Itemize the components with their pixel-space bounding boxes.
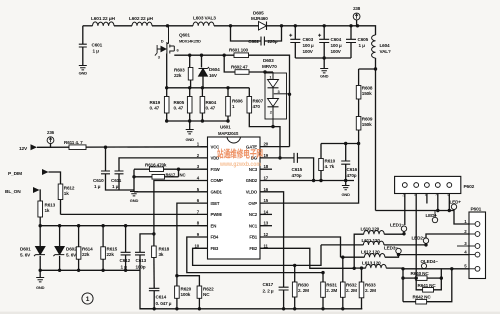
svg-text:MRV70: MRV70: [262, 64, 277, 69]
svg-text:0. 47: 0. 47: [174, 106, 184, 111]
svg-text:www.gzwxb.com: www.gzwxb.com: [219, 161, 261, 168]
wire R631 bottom: [322, 297, 324, 309]
svg-text:D601: D601: [20, 247, 31, 252]
svg-text:NC: NC: [203, 292, 210, 297]
capacitor C612: [120, 252, 131, 269]
wire P601 pin4 line: [399, 254, 470, 256]
transistor Q2... Q601 MOSFET: [155, 26, 201, 60]
wire P602 pinB stem: [415, 194, 417, 279]
resistor R617: [152, 175, 165, 180]
svg-text:2. 2M: 2. 2M: [326, 288, 337, 293]
wire sense gnd stem: [189, 121, 191, 129]
inductor L603: [193, 16, 216, 26]
wire R640 right up: [440, 269, 442, 278]
node rail R619: [165, 86, 168, 89]
svg-text:MJR460: MJR460: [251, 16, 268, 21]
resistor R607: [247, 97, 264, 114]
inductor L602: [129, 16, 154, 26]
wire R631 top stub: [322, 273, 324, 282]
wire L611 feed line: [321, 244, 363, 246]
svg-text:P_DIM: P_DIM: [8, 171, 22, 177]
node bottom rail R620: [175, 307, 178, 310]
resistor R603: [174, 68, 193, 81]
svg-text:R616 470k: R616 470k: [145, 163, 167, 168]
svg-text:COMP: COMP: [211, 178, 224, 183]
svg-text:NC1: NC1: [249, 223, 258, 228]
wire R609 bottom: [358, 130, 360, 144]
resistor R602: [231, 65, 249, 75]
svg-text:22k: 22k: [82, 252, 90, 257]
svg-text:C613: C613: [136, 258, 147, 263]
wire 12V line: [37, 146, 208, 149]
svg-text:100 μ: 100 μ: [303, 43, 314, 48]
node R617 left: [132, 175, 135, 178]
node pinB R641: [415, 276, 418, 279]
svg-text:Q601: Q601: [179, 33, 190, 38]
input BL_ON: [5, 187, 40, 195]
svg-text:20: 20: [264, 142, 269, 147]
wire LED2- to L611: [425, 243, 427, 245]
svg-text:0. 47: 0. 47: [206, 106, 216, 111]
svg-text:R607: R607: [253, 99, 264, 104]
resistor R619: [150, 97, 170, 114]
svg-text:R631: R631: [326, 283, 337, 288]
wire C613 bottom to gnd corner: [140, 255, 154, 309]
wire P_DIM to R612: [49, 172, 61, 184]
svg-text:PWMI: PWMI: [211, 212, 222, 217]
wire Q601 source to sense rail: [166, 54, 168, 88]
resistor R622: [197, 286, 214, 298]
wire bus D605 to L604 corner: [267, 26, 376, 35]
wire D602 top stem: [59, 226, 61, 247]
node FB2 L613 L610: [353, 267, 356, 270]
wire R632 bottom: [342, 297, 344, 309]
svg-text:GND: GND: [130, 198, 139, 203]
resistor R641: [418, 283, 437, 292]
wire left gnd rail: [40, 269, 140, 271]
node R640 left: [401, 276, 404, 279]
wire divider branch: [359, 68, 376, 70]
svg-text:MAP3204S: MAP3204S: [218, 131, 239, 136]
inductor L610: [361, 227, 385, 235]
wire R619 leads: [166, 88, 168, 97]
zener D601: [34, 247, 45, 257]
svg-text:C603: C603: [303, 37, 314, 42]
svg-text:R608: R608: [362, 86, 373, 91]
node R610 bottom junction: [319, 179, 322, 182]
wire L613 right lead: [386, 267, 403, 270]
wire GND2 pin17 line: [260, 180, 354, 182]
wire ISET pin6 line: [177, 203, 208, 276]
wire R616 left lead: [134, 168, 150, 170]
wire C614 bottom: [153, 291, 155, 309]
wire L613 lead: [354, 267, 366, 269]
wire OVP filter top: [321, 143, 359, 145]
node EN C612: [124, 224, 127, 227]
svg-text:BL_ON: BL_ON: [5, 189, 21, 195]
svg-text:LED1−: LED1−: [390, 223, 404, 228]
wire cap rail GND stem: [323, 58, 325, 68]
svg-text:站通维修电子网: 站通维修电子网: [217, 148, 263, 161]
svg-text:R610: R610: [325, 159, 336, 164]
svg-text:R604: R604: [206, 100, 217, 105]
wire C605 stem top: [350, 26, 352, 40]
svg-text:ISET: ISET: [211, 201, 220, 206]
wire EN pin8 rail: [40, 225, 207, 227]
svg-text:R605: R605: [174, 100, 185, 105]
svg-text:FB1: FB1: [249, 235, 257, 240]
svg-text:R633: R633: [365, 283, 376, 288]
wire R608-R609: [358, 99, 360, 117]
wire L604 to output node: [375, 58, 377, 211]
wire L610 lead corner: [354, 234, 364, 268]
node pin5 left: [401, 267, 404, 270]
svg-text:C617: C617: [263, 282, 274, 287]
ground C601: [79, 66, 88, 76]
wire NC3 pin18 stub: [260, 168, 272, 170]
svg-text:17: 17: [264, 176, 269, 181]
wire FB3 pin10 line: [193, 245, 321, 266]
svg-text:GND: GND: [79, 71, 88, 76]
node C610 tap: [104, 146, 107, 149]
wire R630 bottom: [294, 297, 296, 309]
wire R617 leads: [134, 176, 152, 178]
wire FSW pin3 line: [164, 168, 208, 170]
node gnd rail C612: [124, 269, 127, 272]
svg-text:NC: NC: [180, 173, 186, 178]
svg-text:16: 16: [264, 187, 269, 192]
node rail R630: [293, 307, 296, 310]
svg-text:GND: GND: [320, 74, 329, 79]
wire C603 stem top: [294, 26, 296, 40]
wire LED1- to L610: [403, 231, 405, 233]
label R616 value placeholder: [0, 0, 1, 1]
svg-text:LED+: LED+: [450, 200, 462, 205]
wire C611 bottom: [118, 174, 120, 190]
node L611 LED2-: [424, 243, 427, 246]
node watermark (orange stamp): [217, 148, 263, 168]
wire R632 top stub: [342, 257, 344, 282]
svg-text:D: D: [161, 38, 164, 43]
wire R606 leads: [227, 88, 229, 97]
node gnd rail R614: [77, 269, 80, 272]
ground sense resistors: [185, 130, 194, 143]
svg-text:L612 120: L612 120: [361, 250, 380, 255]
wire R602 right lead: [249, 71, 273, 73]
node D603 pin3 junction: [288, 93, 291, 96]
wire D601 bottom stem: [39, 256, 41, 270]
resistor R609: [356, 117, 373, 131]
wire P602 pinA stem: [404, 194, 406, 226]
svg-text:470p: 470p: [292, 173, 302, 178]
wire VDD pin2 line: [119, 158, 208, 171]
svg-text:13: 13: [264, 221, 269, 226]
wire P602 pinC stub: [426, 194, 428, 204]
svg-text:D603: D603: [263, 58, 274, 63]
svg-text:R613: R613: [45, 203, 56, 208]
test point LED+ (upper): [450, 200, 462, 210]
wire R633 bottom: [361, 298, 363, 309]
wire NC1 pin13 stub: [260, 225, 272, 227]
svg-text:GND: GND: [36, 285, 45, 290]
svg-text:R602 47: R602 47: [231, 65, 248, 70]
svg-text:GND: GND: [185, 137, 194, 142]
svg-text:5. 6V: 5. 6V: [20, 253, 31, 258]
svg-text:C605: C605: [358, 37, 369, 42]
svg-text:FB4: FB4: [211, 235, 219, 240]
node gnd rail D601: [39, 269, 42, 272]
svg-text:100 μ: 100 μ: [331, 43, 342, 48]
connector P602: [395, 176, 475, 197]
svg-text:16V: 16V: [209, 73, 218, 78]
test point LED1-: [390, 223, 407, 232]
node bottom rail R606: [226, 119, 229, 122]
ground left rail: [36, 278, 45, 291]
test point 236: [47, 130, 55, 144]
svg-text:R614: R614: [82, 247, 93, 252]
wire cap gnd vertical: [133, 170, 135, 192]
wire sense bottom rail: [167, 113, 228, 121]
wire C603 stem bottom: [294, 43, 296, 59]
node L612 R632: [341, 256, 344, 259]
svg-text:22k: 22k: [174, 73, 182, 78]
resistor R601: [229, 48, 249, 58]
svg-text:2. 2 μ: 2. 2 μ: [263, 289, 274, 294]
svg-text:LED2−: LED2−: [412, 236, 426, 241]
test point 238: [353, 6, 361, 20]
wire TP238 stem: [356, 20, 358, 26]
wire Q601 gate line: [174, 54, 234, 56]
capacitor C602: [248, 37, 277, 46]
svg-text:L610 120: L610 120: [361, 227, 380, 232]
wire R642 left lead: [403, 301, 416, 303]
wire C616 bottom stem: [345, 164, 347, 180]
wire OVP pin15 line: [260, 144, 359, 204]
wire bus L602-L603 with drain tap: [152, 25, 193, 27]
svg-text:P601: P601: [471, 207, 482, 213]
inductor L613: [362, 261, 386, 269]
svg-text:R619: R619: [150, 100, 161, 105]
node page marker (1): [82, 293, 93, 304]
wire GND1 pin5 line: [134, 191, 208, 193]
capacitor C611: [111, 171, 124, 189]
wire C601 to ground: [82, 47, 84, 65]
wire R642 right lead: [427, 269, 452, 302]
svg-text:12V: 12V: [19, 146, 28, 152]
wire R605 bottom: [189, 113, 191, 121]
wire main bottom rail: [140, 308, 362, 310]
capacitor C613: [135, 252, 147, 269]
svg-text:R615: R615: [107, 247, 118, 252]
node rail R631: [321, 307, 324, 310]
svg-text:2. 2M: 2. 2M: [298, 288, 309, 293]
node C615 bottom junction: [312, 179, 315, 182]
wire R612 to PWMI: [60, 200, 62, 215]
svg-text:11: 11: [264, 243, 269, 248]
svg-text:10: 10: [194, 243, 199, 248]
node R640 right: [440, 276, 443, 279]
svg-text:R630: R630: [298, 283, 309, 288]
wire R603 bottom lead: [190, 80, 192, 88]
svg-text:5. 6V: 5. 6V: [66, 253, 77, 258]
wire bus L603 to D605: [214, 25, 259, 27]
resistor R612: [58, 184, 75, 200]
svg-text:LED+: LED+: [426, 213, 438, 218]
wire BL_ON to R613: [39, 190, 42, 201]
svg-text:C604: C604: [331, 37, 342, 42]
svg-text:L613 120: L613 120: [362, 261, 381, 266]
svg-text:R601 100: R601 100: [229, 48, 248, 53]
svg-text:12: 12: [264, 232, 269, 237]
node gnd rail D602: [58, 269, 61, 272]
node OVP divider junction: [357, 142, 360, 145]
svg-text:R603: R603: [174, 68, 185, 73]
wire D604 bottom lead: [202, 76, 204, 88]
inductor L601: [91, 16, 116, 26]
svg-text:100V: 100V: [303, 49, 314, 54]
svg-text:C614: C614: [156, 295, 167, 300]
node C616 top junction: [344, 142, 347, 145]
wire FB1 pin12 line: [260, 237, 341, 257]
resistor R632: [341, 282, 358, 297]
svg-text:GND: GND: [341, 192, 350, 197]
capacitor C601: [79, 43, 103, 54]
wire R620-R622 top link: [177, 276, 200, 286]
wire R615 top stem: [102, 226, 104, 247]
svg-text:C601: C601: [92, 43, 103, 48]
svg-text:0. 47: 0. 47: [150, 106, 160, 111]
wire R603 top lead: [189, 55, 191, 67]
wire TP236 stem: [50, 144, 52, 148]
node bottom rail C614: [153, 307, 156, 310]
wire C615 right: [297, 158, 313, 181]
wire R617 right vertical: [178, 169, 180, 177]
svg-text:2. 2M: 2. 2M: [365, 288, 376, 293]
wire R610 top: [320, 144, 322, 159]
capacitor C615: [292, 153, 303, 178]
resistor R631: [321, 282, 338, 297]
inductor L612: [361, 250, 385, 258]
input P_DIM: [8, 169, 49, 177]
resistor R620: [175, 286, 192, 298]
capacitor C605: [346, 37, 369, 48]
svg-text:GND1: GND1: [211, 190, 223, 195]
wire R640 left lead: [403, 277, 416, 279]
wire R610 bottom: [320, 171, 322, 181]
node Q601 drain junction: [166, 24, 169, 27]
wire R640 right lead: [427, 277, 441, 279]
wire P602 pinE stem: [448, 194, 450, 211]
node EN D602: [58, 224, 61, 227]
resistor R615: [101, 247, 118, 260]
resistor R614: [76, 247, 93, 260]
wire GATE pin20: [260, 146, 290, 148]
capacitor C603: [289, 34, 314, 54]
wire R607 top lead: [248, 88, 250, 97]
capacitor C614: [149, 288, 172, 306]
node COMP R618 C613: [152, 232, 155, 235]
svg-text:0. 047 μ: 0. 047 μ: [156, 301, 172, 306]
svg-text:22k: 22k: [107, 252, 115, 257]
op-amp U1... IC U601 MAP3204S: [208, 125, 261, 260]
svg-text:R609: R609: [362, 117, 373, 122]
svg-text:VLDO: VLDO: [246, 190, 258, 195]
svg-text:R611 4. 7: R611 4. 7: [64, 140, 83, 145]
svg-text:1 μ: 1 μ: [94, 184, 101, 189]
wire R618 to C614: [153, 258, 155, 289]
input 12V: [19, 144, 37, 152]
wire pin5 to R640 left: [402, 269, 404, 302]
svg-text:C611: C611: [111, 178, 122, 183]
svg-text:1 μ: 1 μ: [93, 49, 100, 54]
wire R615 bottom stem: [102, 259, 104, 270]
svg-text:P602: P602: [464, 184, 475, 190]
wire R601 right to D603 pin3: [249, 55, 290, 146]
inductor L604: [372, 35, 391, 58]
wire R641 left lead: [416, 278, 422, 290]
connector P601: [457, 207, 486, 279]
svg-text:D604: D604: [209, 67, 220, 72]
svg-text:VAL?: VAL?: [380, 49, 391, 54]
wire bus L601-L602: [114, 25, 132, 27]
node bottom rail R619: [165, 119, 168, 122]
svg-text:EN: EN: [211, 223, 217, 228]
node EN D601: [39, 224, 42, 227]
node C603 tap: [294, 24, 297, 27]
svg-text:C610: C610: [93, 178, 104, 183]
node rail C617: [282, 307, 285, 310]
svg-text:1: 1: [86, 296, 90, 303]
svg-text:D602: D602: [66, 247, 77, 252]
node cap rail GND junction: [323, 56, 326, 59]
svg-text:100k: 100k: [181, 292, 191, 297]
wire R641 right lead: [434, 278, 442, 290]
wire D601 top stem: [39, 226, 41, 247]
svg-text:OVP: OVP: [248, 201, 257, 206]
wire C602 to bus right: [264, 26, 281, 41]
svg-text:L601 22 μH: L601 22 μH: [91, 16, 116, 22]
wire C605 stem bottom: [350, 43, 352, 59]
wire C601 stem: [82, 26, 84, 44]
wire cap bank bottom rail: [295, 57, 351, 59]
test point LED3-: [384, 246, 401, 254]
svg-text:R618: R618: [159, 247, 170, 252]
wire R633 top stub: [361, 268, 363, 282]
node rail R605: [188, 86, 191, 89]
svg-text:15: 15: [264, 198, 269, 203]
wire L612 right lead: [385, 255, 399, 258]
node bottom rail R622: [198, 307, 201, 310]
svg-text:150k: 150k: [362, 122, 372, 127]
ground C610 C611: [130, 192, 139, 204]
wire R604 bottom: [201, 113, 203, 121]
wire L610 right lead: [384, 233, 404, 235]
svg-text:U601: U601: [220, 125, 231, 130]
svg-text:C615: C615: [292, 167, 303, 172]
svg-text:R632: R632: [346, 283, 357, 288]
label R617: [166, 173, 186, 178]
svg-text:L603 VAL3: L603 VAL3: [193, 16, 216, 22]
resistor R633: [359, 282, 376, 298]
svg-text:18: 18: [264, 164, 269, 169]
svg-text:470: 470: [253, 104, 261, 109]
wire R617 right lead: [165, 176, 179, 178]
svg-text:14: 14: [264, 209, 269, 214]
node bottom rail gnd: [188, 119, 191, 122]
resistor R608: [356, 86, 373, 100]
wire gnd rail stem: [39, 270, 41, 277]
svg-text:236: 236: [47, 130, 55, 135]
